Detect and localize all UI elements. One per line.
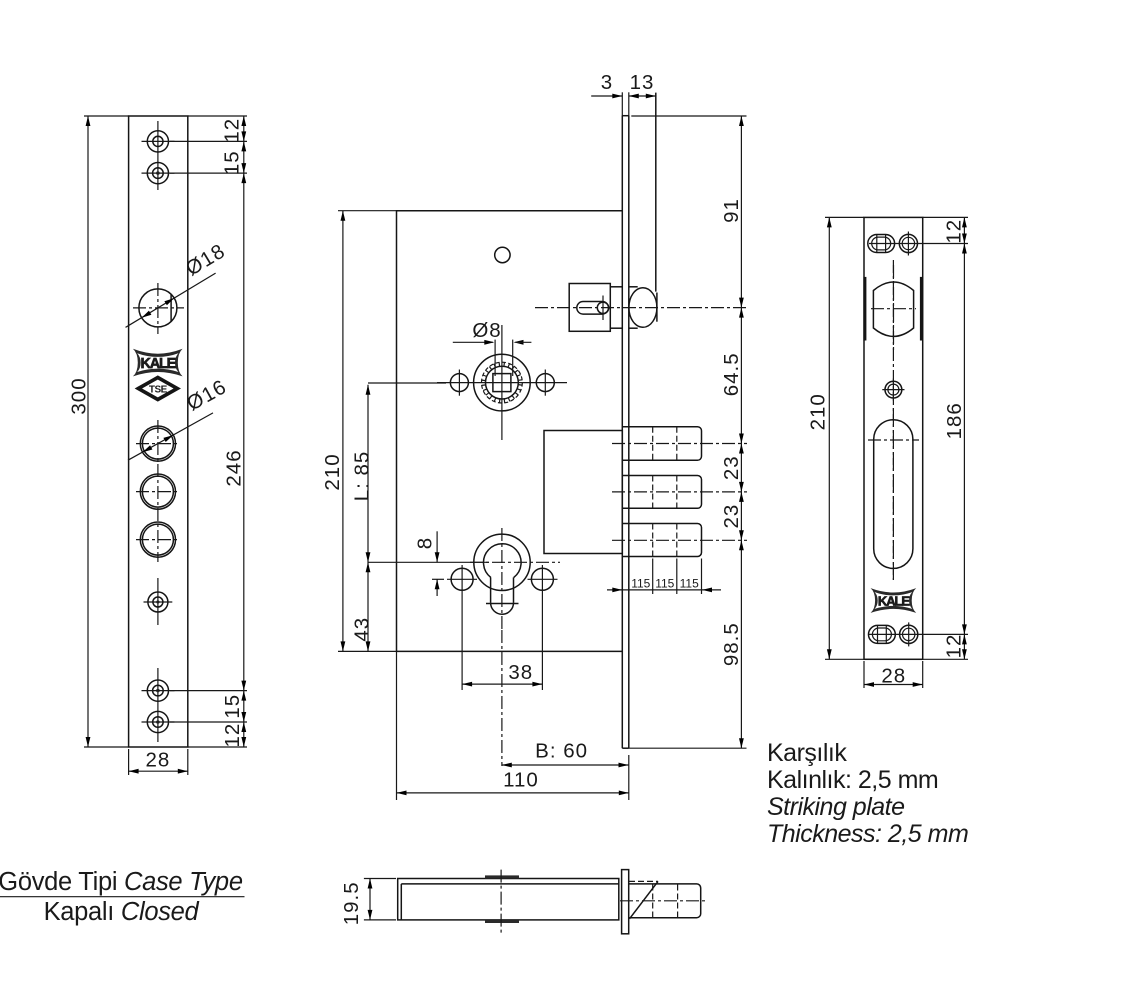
TSE logo: [138, 378, 177, 400]
case outline side view: [398, 879, 619, 920]
bottom screw hole 1: [147, 680, 168, 701]
small hole: [148, 592, 168, 612]
svg-text:Gövde Tipi Case Type: Gövde Tipi Case Type: [0, 868, 243, 896]
dim 28: [863, 661, 865, 688]
svg-text:210: 210: [807, 393, 830, 430]
leader D18: [126, 273, 216, 327]
centerline: [500, 870, 502, 934]
top screw hole 1: [147, 131, 168, 152]
tabs: [485, 875, 519, 878]
dim B:60: [501, 630, 503, 766]
bottom screws: [869, 625, 896, 643]
cylinder side holes: [451, 568, 473, 590]
deadbolt block: [544, 431, 622, 554]
svg-text:115: 115: [680, 577, 699, 591]
deadbolt window (obround): [874, 420, 913, 569]
faceplate edge-on (two vertical lines): [621, 116, 623, 749]
faceplate bar: [622, 870, 629, 934]
top screw hole 2: [147, 163, 168, 184]
dim L:85 / 43: [368, 382, 446, 384]
striking plate outline: [864, 217, 923, 659]
svg-text:98.5: 98.5: [720, 622, 743, 666]
dimension 300 left: [84, 115, 129, 117]
svg-text:KALE: KALE: [140, 356, 176, 372]
svg-text:19.5: 19.5: [340, 881, 363, 925]
svg-text:KALE: KALE: [878, 593, 910, 608]
svg-text:300: 300: [67, 377, 90, 414]
dim 115x3: [652, 559, 654, 595]
dimension 28 bottom: [128, 749, 130, 775]
latch block inside: [569, 284, 610, 332]
svg-text:Karşılık: Karşılık: [767, 739, 847, 767]
svg-text:Ø8: Ø8: [472, 319, 501, 342]
latch centerline: [535, 307, 747, 309]
dim 19.5: [364, 878, 396, 880]
svg-text:28: 28: [881, 665, 906, 688]
svg-text:64.5: 64.5: [720, 352, 743, 396]
svg-text:L: 85: L: 85: [350, 451, 373, 502]
dim 3 / 13 top: [591, 95, 622, 97]
svg-text:91: 91: [720, 198, 743, 223]
top small circle: [495, 247, 510, 262]
plate centerline: [892, 260, 894, 580]
svg-text:Kalınlık: 2,5 mm: Kalınlık: 2,5 mm: [767, 766, 938, 794]
svg-text:246: 246: [222, 449, 245, 486]
vertical centerline: [157, 121, 159, 190]
latch window: [873, 282, 913, 336]
latch bolt side: [629, 884, 701, 918]
svg-text:186: 186: [943, 402, 966, 439]
right dim column 91/64.5/23/23/98.5: [631, 115, 746, 117]
D16 hole 1: [140, 426, 175, 461]
svg-text:12: 12: [943, 219, 966, 244]
body outline: [397, 211, 623, 652]
svg-text:28: 28: [145, 749, 170, 772]
plate outline: [129, 116, 188, 747]
dim 8 (cyl offset): [432, 578, 444, 580]
hub side holes: [450, 374, 468, 392]
top screws: oval + round: [868, 235, 895, 253]
svg-text:23: 23: [720, 504, 743, 529]
euro cylinder: [474, 534, 530, 590]
dim chain 12/15/246/15/12: [243, 116, 245, 747]
svg-text:TSE: TSE: [149, 385, 168, 396]
svg-text:Thickness: 2,5 mm: Thickness: 2,5 mm: [767, 820, 968, 848]
D16 hole 3: [140, 522, 175, 557]
svg-text:115: 115: [655, 577, 674, 591]
svg-text:15: 15: [221, 694, 244, 719]
latch guide strip line: [655, 93, 657, 292]
svg-text:43: 43: [350, 617, 373, 642]
KALE logo: [133, 349, 183, 377]
dim 210 left of body: [338, 210, 397, 212]
svg-text:38: 38: [508, 661, 533, 684]
svg-text:8: 8: [414, 537, 437, 549]
svg-text:Kapalı Closed: Kapalı Closed: [44, 898, 200, 926]
square follower hub: [474, 354, 531, 411]
bottom screw hole 2: [147, 711, 168, 732]
dim 210: [825, 216, 864, 218]
big hole D18: [139, 289, 177, 327]
svg-text:Striking plate: Striking plate: [767, 793, 905, 821]
svg-text:115: 115: [631, 577, 650, 591]
center screw hole: [885, 381, 902, 398]
KALE logo right plate: [871, 588, 917, 613]
deadbolt pins: [612, 427, 747, 557]
dim 110: [396, 651, 398, 800]
svg-text:12: 12: [221, 723, 244, 748]
svg-text:210: 210: [321, 453, 344, 490]
dim D8: [494, 340, 496, 376]
extension lines right side: [188, 115, 247, 117]
svg-text:12: 12: [943, 634, 966, 659]
latch head: [629, 288, 657, 328]
svg-text:B: 60: B: 60: [535, 740, 588, 763]
svg-text:3: 3: [601, 71, 613, 94]
svg-text:12: 12: [221, 118, 244, 143]
svg-text:23: 23: [720, 455, 743, 480]
svg-text:15: 15: [221, 150, 244, 175]
D16 hole 2: [140, 474, 175, 509]
leader D16: [128, 413, 213, 460]
dim 38: [461, 565, 463, 690]
faceplate extension lines up: [621, 92, 623, 115]
svg-text:110: 110: [503, 769, 539, 792]
svg-text:13: 13: [630, 71, 655, 94]
dim 12/186/12 right: [923, 216, 968, 218]
